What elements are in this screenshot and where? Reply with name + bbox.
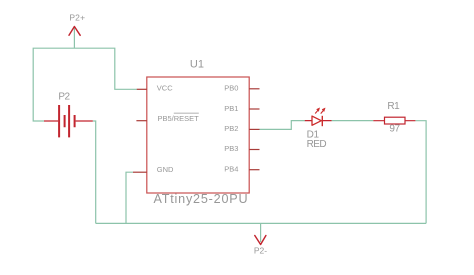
node P2- (254, 236, 267, 256)
svg-text:P2: P2 (58, 92, 70, 103)
pin PB3 (224, 144, 259, 153)
resistor R1 value 97 (373, 101, 415, 135)
wire: bottom ground rail (96, 222, 426, 224)
svg-text:P2-: P2- (254, 246, 267, 256)
svg-text:P2+: P2+ (69, 13, 85, 23)
svg-text:PB2: PB2 (224, 124, 238, 133)
pin PB2 (224, 124, 259, 133)
wire: P2- arrow shaft (260, 223, 262, 242)
svg-text:R1: R1 (387, 101, 400, 112)
svg-text:ATtiny25-20PU: ATtiny25-20PU (154, 192, 249, 206)
svg-text:PB5/RESET: PB5/RESET (158, 114, 200, 123)
svg-text:RED: RED (307, 139, 327, 150)
svg-text:GND: GND (157, 165, 174, 174)
wire: LED to resistor (332, 120, 374, 122)
svg-text:PB0: PB0 (224, 84, 238, 93)
node P2+ (69, 13, 85, 36)
svg-text:PB1: PB1 (224, 104, 238, 113)
wire: P2+ arrow shaft (73, 27, 75, 48)
pin PB1 (224, 104, 259, 113)
wire: resistor to right rail down to bottom rail (415, 121, 426, 224)
diode D1 RED (LED) (305, 108, 332, 150)
wire: battery- down to bottom rail (93, 121, 96, 223)
wire: battery+ up to top rail, over and down to VCC (33, 48, 137, 121)
pin PB4 (224, 164, 259, 173)
svg-text:PB3: PB3 (224, 144, 238, 153)
wire: GND pin to bottom rail (126, 172, 133, 223)
pin VCC (137, 84, 173, 93)
pin PB0 (224, 84, 259, 93)
op-amp U1 box (ATtiny25-20PU) (147, 59, 249, 207)
svg-text:97: 97 (389, 124, 400, 135)
svg-text:U1: U1 (190, 59, 204, 71)
pin PB5/RESET (136, 113, 199, 123)
battery P2 (44, 92, 93, 138)
pin GND (133, 165, 174, 174)
wire: PB2 to LED jog (260, 121, 306, 130)
svg-text:PB4: PB4 (224, 164, 238, 173)
svg-text:VCC: VCC (157, 84, 173, 93)
